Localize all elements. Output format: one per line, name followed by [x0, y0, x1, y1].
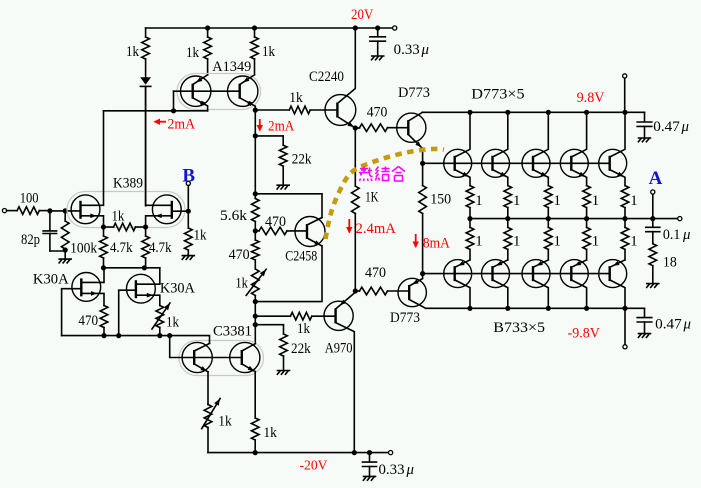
- wire K30A left gate: [62, 289, 82, 336]
- wire diode to K389 right drain: [145, 86, 147, 205]
- wire -20V bottom rail: [208, 452, 391, 454]
- wire 82p bottom to 100k: [50, 250, 65, 252]
- wire 5.6k to 470: [254, 222, 256, 241]
- wire to 22k top: [255, 136, 283, 145]
- svg-text:18: 18: [663, 255, 677, 271]
- node A970 collector rail: [352, 450, 357, 455]
- svg-text:9.8V: 9.8V: [577, 90, 605, 106]
- node C2240 emitter: [353, 125, 358, 130]
- node collector rail col5: [622, 110, 627, 115]
- resistor 470 driver bottom: [355, 290, 359, 292]
- resistor 1K bias: [352, 186, 360, 214]
- wire output collector rail top: [422, 111, 644, 113]
- svg-text:1: 1: [554, 193, 561, 209]
- wire chain verticals: [254, 302, 256, 344]
- wire var1k to rail: [207, 428, 209, 453]
- node junction 1k R2 top: [205, 25, 210, 30]
- resistor 1ohm row2 #4: [586, 219, 588, 228]
- node junction 1k R3 top: [252, 25, 257, 30]
- ground feedback: [182, 256, 194, 260]
- ground under 18: [647, 284, 659, 288]
- svg-text:470: 470: [229, 247, 250, 263]
- svg-text:1k: 1k: [235, 276, 248, 292]
- svg-text:100k: 100k: [70, 240, 98, 256]
- wire 1k fb to ground: [187, 250, 189, 255]
- capacitor C-top 0.33u: [370, 37, 386, 41]
- svg-text:1: 1: [513, 234, 520, 250]
- node A1349 right collector: [253, 108, 258, 113]
- resistor 22k lower: [280, 334, 288, 356]
- trimmer 1k bottom: [204, 405, 212, 428]
- resistor 5.6k: [254, 194, 256, 199]
- transistor A1349 left: [181, 76, 211, 106]
- wire 470 to var 1k: [254, 260, 256, 269]
- ground under 22k lower: [277, 371, 289, 375]
- svg-text:1: 1: [513, 193, 520, 209]
- svg-text:4.7k: 4.7k: [110, 240, 133, 256]
- capacitor 0.33u bottom: [369, 453, 371, 462]
- resistor 1ohm row1 #2: [504, 186, 512, 208]
- node C2458 emitter tie: [253, 299, 258, 304]
- svg-text:-20V: -20V: [300, 459, 328, 474]
- transistor D773 output #2: [482, 149, 510, 177]
- wire 100k to ground: [64, 250, 66, 259]
- node 4.7k left bottom: [101, 265, 106, 270]
- node junction C2240 collector to +20V rail: [353, 25, 358, 30]
- svg-text:1k: 1k: [194, 228, 208, 244]
- svg-text:470: 470: [365, 265, 386, 281]
- node emitter bus col3: [546, 216, 551, 221]
- transistor D773 driver top: [397, 113, 426, 142]
- label thermal coupling 2: [376, 167, 390, 181]
- svg-text:2mA: 2mA: [268, 119, 294, 135]
- svg-text:1k: 1k: [112, 209, 125, 225]
- node emitter bus col5: [622, 216, 627, 221]
- label thermal coupling 1: [359, 167, 373, 182]
- svg-text:0.1: 0.1: [663, 227, 681, 243]
- wire var1k to emitter node: [254, 296, 256, 302]
- svg-text:1k: 1k: [218, 414, 232, 430]
- resistor 1k R2: [204, 37, 212, 59]
- node 1k bottom rail: [253, 450, 258, 455]
- current arrow 2.4mA: [348, 219, 350, 233]
- wire output collector rail bottom: [426, 307, 645, 309]
- resistor 1ohm row1 #3: [545, 186, 553, 208]
- transistor C3381 right: [230, 342, 260, 372]
- wire K30A right gate: [119, 290, 136, 335]
- transistor B733 output #3: [522, 260, 550, 288]
- svg-text:1k: 1k: [262, 44, 276, 60]
- ground under 0.47u top: [638, 138, 650, 142]
- wire +20V top rail: [146, 27, 395, 29]
- svg-text:1: 1: [630, 234, 637, 250]
- resistor 1k to C2240 base: [255, 109, 289, 111]
- wire emitter tie right: [255, 246, 322, 302]
- svg-text:μ: μ: [682, 227, 690, 243]
- node 100k top: [63, 208, 68, 213]
- transistor B733 output #2: [482, 260, 510, 288]
- svg-text:1k: 1k: [126, 44, 140, 60]
- wire rail to 1k R2: [207, 28, 209, 37]
- wire A terminal riser: [652, 194, 654, 219]
- transistor D773 driver bottom: [398, 278, 426, 306]
- node base rail row1 driver: [420, 161, 425, 166]
- trimmer 1k chain: [252, 269, 260, 296]
- package outline A1349: [177, 74, 261, 110]
- svg-text:1k: 1k: [186, 45, 200, 61]
- wire 150 top lead: [422, 163, 424, 185]
- resistor 1ohm row2 #1: [469, 219, 471, 228]
- svg-text:1: 1: [475, 234, 482, 250]
- svg-text:μ: μ: [683, 316, 691, 332]
- transistor D773 output #1: [444, 149, 472, 177]
- svg-text:-9.8V: -9.8V: [568, 326, 600, 342]
- svg-text:4.7k: 4.7k: [149, 240, 172, 256]
- node collector rail bottom col4: [584, 306, 589, 311]
- svg-text:1: 1: [475, 193, 482, 209]
- terminal -20V: [389, 451, 393, 455]
- svg-text:B: B: [182, 165, 195, 186]
- svg-text:100: 100: [20, 191, 39, 207]
- terminal input: [2, 209, 6, 213]
- node junction 0.33u to +20V rail: [375, 25, 380, 30]
- ground under 0.47u bottom: [638, 334, 650, 338]
- node bus 470: [101, 333, 106, 338]
- node collector rail col1: [467, 110, 472, 115]
- svg-text:μ: μ: [406, 462, 414, 478]
- node base rail row2 driver: [420, 271, 425, 276]
- svg-text:B733×5: B733×5: [493, 320, 545, 336]
- node collector rail bottom col3: [546, 306, 551, 311]
- svg-text:μ: μ: [421, 42, 429, 58]
- terminal A right: [678, 217, 682, 221]
- node bus to mirror: [167, 333, 172, 338]
- terminal B: [186, 181, 190, 185]
- node 0.33u bottom rail: [367, 450, 372, 455]
- resistor 470 driver top: [355, 127, 359, 129]
- svg-text:0.33: 0.33: [394, 42, 420, 58]
- node VAS top: [353, 288, 358, 293]
- svg-text:150: 150: [430, 192, 451, 208]
- resistor 1ohm row2 #5: [624, 219, 626, 228]
- resistor 22k upper: [279, 145, 287, 166]
- svg-text:C3381: C3381: [213, 324, 252, 340]
- svg-text:82p: 82p: [21, 232, 40, 248]
- transistor A970: [324, 301, 353, 330]
- svg-text:22k: 22k: [292, 152, 312, 168]
- wire 4.7k bottoms join: [104, 267, 160, 269]
- wire 18 to ground: [652, 266, 654, 284]
- svg-text:D773: D773: [390, 310, 420, 326]
- wire C3381 left emitter down: [207, 372, 209, 405]
- wire 1k R3 to A1349 right emitter: [254, 59, 256, 75]
- resistor 1ohm row1 #4: [583, 186, 591, 208]
- svg-text:8mA: 8mA: [423, 236, 450, 252]
- svg-text:470: 470: [265, 214, 286, 230]
- transistor D773 output #3: [522, 149, 550, 177]
- svg-text:1k: 1k: [289, 90, 303, 106]
- jfet K30A left: [72, 273, 101, 302]
- resistor 4.7k right: [145, 227, 147, 236]
- ground under 0.33u bottom: [363, 476, 375, 480]
- wire input to gate: [50, 210, 81, 212]
- node B gate: [186, 209, 191, 214]
- resistor 1k feedback: [187, 211, 189, 228]
- svg-text:C2458: C2458: [285, 249, 317, 265]
- transistor B733 output #5: [599, 260, 627, 288]
- jfet K389 left: [71, 195, 100, 224]
- node bus gate2: [116, 333, 121, 338]
- current arrow 2mA left: [155, 121, 167, 123]
- jfet K30A right: [126, 274, 155, 303]
- svg-text:5.6k: 5.6k: [220, 208, 248, 224]
- label thermal coupling 3: [392, 167, 405, 182]
- svg-text:K30A: K30A: [160, 281, 195, 297]
- svg-text:A970: A970: [325, 341, 353, 357]
- svg-text:2mA: 2mA: [168, 116, 196, 132]
- resistor 470 K30A: [100, 306, 108, 328]
- node emitter bus col4: [584, 216, 589, 221]
- wire 9.8V terminal riser: [624, 78, 626, 112]
- svg-text:μ: μ: [681, 119, 689, 135]
- svg-text:0.47: 0.47: [655, 316, 682, 332]
- transistor C2458: [295, 217, 325, 247]
- svg-text:1: 1: [592, 234, 599, 250]
- terminal 9.8V: [623, 74, 627, 78]
- node emitter bus col2: [505, 216, 510, 221]
- svg-text:1k: 1k: [166, 315, 180, 331]
- ground under 22k upper: [277, 185, 289, 189]
- wire 1k to diode: [145, 59, 147, 77]
- node VAS collector node: [253, 191, 258, 196]
- wire 22k lower to ground: [283, 356, 285, 370]
- transistor C3381 left: [182, 342, 212, 372]
- svg-text:470: 470: [78, 313, 98, 329]
- wire 150 bottom lead: [422, 214, 424, 274]
- node 100k bottom: [63, 247, 68, 252]
- svg-text:D773: D773: [398, 85, 430, 101]
- resistor 1k top-left: [142, 37, 150, 59]
- transistor A1349 right: [228, 76, 258, 106]
- transistor C2240: [325, 95, 356, 126]
- package outline C3381: [179, 341, 264, 376]
- wire 1k to rail: [254, 440, 256, 453]
- wire A1349 base rail: [174, 90, 240, 92]
- node A970 base tie: [253, 314, 258, 319]
- node collector rail col2: [505, 110, 510, 115]
- wire bus to C3381 collector: [170, 336, 210, 344]
- svg-text:D773×5: D773×5: [471, 86, 524, 102]
- node input: [47, 208, 52, 213]
- resistor 470 C2458 base: [255, 230, 259, 232]
- diode D1: [140, 77, 151, 85]
- terminal A: [651, 190, 655, 194]
- resistor 470 chain: [252, 240, 260, 260]
- thermal coupling dashed line: [326, 149, 445, 239]
- wire bus to C3381 base: [170, 336, 242, 358]
- wire 1k R2 to A1349 left emitter: [207, 59, 209, 75]
- resistor 100k: [64, 211, 66, 221]
- svg-text:20V: 20V: [351, 7, 373, 23]
- resistor 150: [419, 186, 427, 214]
- capacitor 82p: [49, 211, 51, 231]
- package outline K389: [67, 192, 185, 228]
- resistor 1ohm row1 #1: [466, 186, 474, 208]
- resistor 100 input: [7, 210, 18, 212]
- transistor D773 output #5: [599, 149, 627, 177]
- wire 22k lower tap: [255, 325, 283, 334]
- resistor 1k between sources: [104, 226, 114, 228]
- wire rail to 1k R3: [254, 28, 256, 37]
- wire A1349 base to collector tie: [173, 91, 175, 111]
- ground input: [59, 259, 71, 263]
- terminal +20V: [393, 26, 397, 30]
- resistor 1k to A970 base: [255, 315, 290, 317]
- node emitter bus col1: [467, 216, 472, 221]
- transistor B733 output #4: [560, 260, 588, 288]
- svg-text:1K: 1K: [365, 189, 379, 205]
- capacitor 0.33u top lead: [377, 28, 379, 37]
- svg-text:0.47: 0.47: [653, 119, 680, 135]
- ground under top 0.33u: [372, 56, 384, 60]
- wire mirror output to K389 drain: [104, 110, 208, 112]
- wire B to gate: [172, 186, 189, 212]
- trimmer 1k K30A: [156, 306, 164, 328]
- capacitor 0.1u: [652, 219, 654, 227]
- current arrow 2mA down: [259, 119, 261, 131]
- resistor 1ohm row2 #2: [507, 219, 509, 228]
- wire node down to 22k tap: [254, 110, 256, 194]
- node mirror tie: [171, 108, 176, 113]
- svg-text:0.33: 0.33: [379, 462, 405, 478]
- node 22k tap: [253, 133, 258, 138]
- resistor 18: [649, 244, 657, 266]
- wire output base rail row1: [423, 162, 610, 164]
- wire output base rail row2: [423, 273, 610, 275]
- node collector rail col4: [584, 110, 589, 115]
- svg-text:1: 1: [630, 193, 637, 209]
- node 5.6k bottom: [253, 228, 258, 233]
- svg-text:C2240: C2240: [309, 69, 344, 85]
- node collector rail bottom col2: [505, 306, 510, 311]
- terminal -9.8V: [623, 345, 627, 349]
- transistor D773 output #4: [560, 149, 588, 177]
- jfet K389 right: [152, 195, 181, 224]
- resistor 1ohm row1 #5: [621, 186, 629, 208]
- node 4.7k right bottom: [142, 265, 147, 270]
- transistor B733 output #1: [444, 260, 472, 288]
- resistor 1k R3: [251, 37, 259, 59]
- wire C2240 emitter down to 1K: [354, 128, 356, 186]
- svg-text:A: A: [649, 168, 663, 189]
- node A tap: [650, 216, 655, 221]
- wire cap to ground: [377, 41, 379, 56]
- svg-text:1k: 1k: [263, 425, 277, 441]
- wire C3381 right emitter down: [254, 372, 256, 418]
- svg-text:K389: K389: [113, 175, 143, 191]
- svg-text:470: 470: [367, 105, 388, 121]
- node collector rail col3: [546, 110, 551, 115]
- svg-text:1: 1: [554, 234, 561, 250]
- svg-text:1k: 1k: [297, 321, 311, 337]
- resistor 1k C3381 right: [251, 418, 259, 440]
- svg-text:2.4mA: 2.4mA: [356, 221, 396, 237]
- wire gate bus: [62, 335, 170, 337]
- wire rail to 1k: [145, 28, 147, 37]
- wire 1K to A970 emitter node: [354, 214, 356, 292]
- current arrow 8mA: [415, 234, 417, 247]
- svg-text:A1349: A1349: [212, 59, 251, 75]
- node K389 left source: [101, 224, 106, 229]
- capacitor 0.47u bottom: [644, 308, 646, 317]
- wire output emitter bus: [470, 218, 680, 220]
- node collector rail bottom col1: [467, 306, 472, 311]
- node 22k lower tie: [253, 322, 258, 327]
- wire node to C2458 collector: [255, 194, 322, 218]
- capacitor 0.47u top: [644, 112, 646, 121]
- svg-text:1: 1: [592, 193, 599, 209]
- wire 22k to ground: [282, 166, 284, 185]
- svg-text:K30A: K30A: [33, 272, 69, 288]
- resistor 1ohm row2 #3: [547, 219, 549, 228]
- wire -9.8V terminal drop: [624, 308, 626, 344]
- node collector rail bottom col5: [622, 306, 627, 311]
- svg-text:22k: 22k: [291, 341, 311, 357]
- node bus var1k: [157, 333, 162, 338]
- node K389 right source: [143, 224, 148, 229]
- resistor 4.7k left: [103, 227, 105, 236]
